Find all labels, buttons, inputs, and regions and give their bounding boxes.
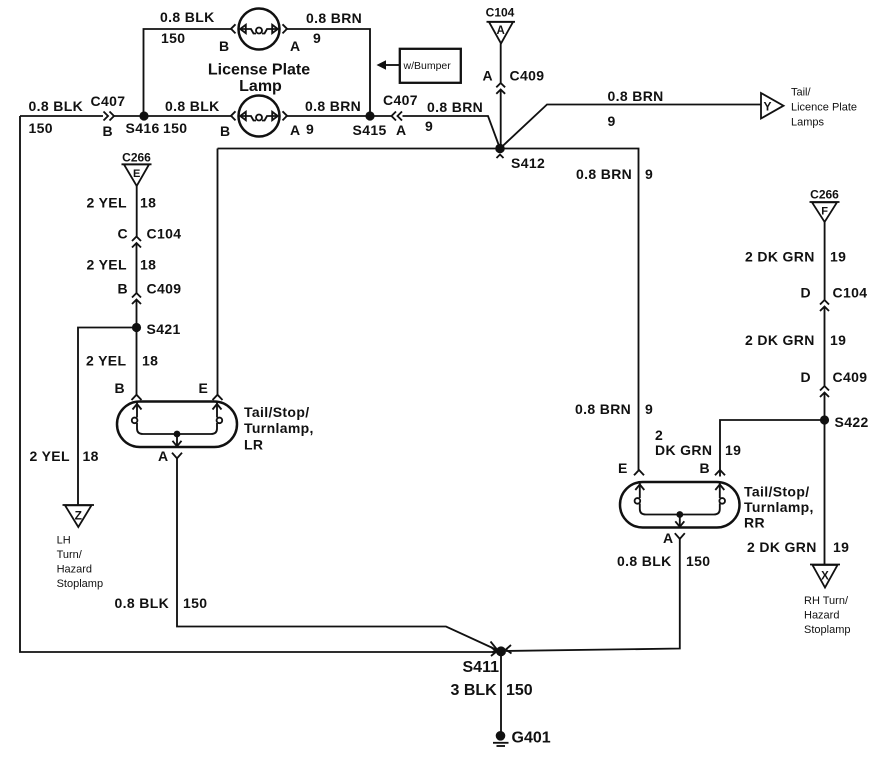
svg-text:18: 18	[142, 353, 158, 369]
wire: 0.8 BRN 9 from C407 to S412	[403, 116, 501, 149]
svg-text:0.8 BLK: 0.8 BLK	[115, 595, 170, 611]
svg-text:B: B	[220, 123, 230, 139]
node: terminal fork B of upper license plate lamp	[231, 24, 236, 33]
wire: 2 YEL branch from S421 left and down to Z triangle	[78, 328, 137, 506]
node: terminal fork E of RR lamp	[634, 470, 644, 475]
svg-text:E: E	[199, 380, 209, 396]
node: terminal fork A of RR lamp	[675, 533, 685, 539]
node: terminal fork B of LR lamp	[132, 395, 142, 400]
svg-text:0.8 BLK: 0.8 BLK	[29, 98, 84, 114]
svg-text:0.8 BLK: 0.8 BLK	[617, 553, 672, 569]
node: terminal fork B of lower license plate lamp	[231, 111, 236, 120]
svg-text:C409: C409	[510, 68, 545, 84]
ground G401	[493, 731, 509, 746]
splice S422	[820, 415, 829, 424]
wire: left border 0.8 BLK 150 from C407-B down and across to S411	[20, 116, 496, 652]
wire: main horizontal 0.8 BLK from left edge to C407 chevrons	[20, 115, 103, 117]
svg-text:150: 150	[686, 553, 710, 569]
connector C407 (B side, double chevron pointing right)	[104, 112, 115, 121]
svg-text:G401: G401	[512, 730, 551, 747]
wire: 0.8 BLK 150 from RR lamp A down and left to S411	[506, 539, 680, 651]
splice S411 with incoming arrowheads	[491, 642, 512, 657]
callout box w/Bumper	[377, 49, 461, 83]
svg-text:D: D	[801, 285, 811, 301]
wire: 0.8 BLK 150 from C407 to S416 to lamp B terminal	[114, 115, 231, 117]
wire: 2 YEL from C409 to S421	[136, 300, 138, 328]
node: terminal fork B of RR lamp	[715, 470, 725, 475]
svg-text:RR: RR	[744, 515, 765, 531]
svg-text:A: A	[483, 68, 493, 84]
connector C266 reference triangle E (left)	[122, 151, 152, 187]
svg-text:Stoplamp: Stoplamp	[804, 624, 850, 636]
svg-text:Lamp: Lamp	[239, 78, 282, 95]
svg-text:C266: C266	[810, 188, 839, 202]
wire: 2 DK GRN from C409 to S422	[824, 393, 826, 421]
svg-text:3 BLK: 3 BLK	[451, 682, 498, 699]
svg-text:A: A	[663, 530, 673, 546]
svg-text:C409: C409	[833, 369, 868, 385]
svg-text:B: B	[219, 38, 229, 54]
wire: 2 YEL from E triangle down to C104 connector	[136, 186, 138, 237]
svg-text:B: B	[700, 460, 710, 476]
svg-text:9: 9	[313, 30, 321, 46]
svg-text:B: B	[115, 380, 125, 396]
svg-text:150: 150	[506, 682, 533, 699]
svg-text:C266: C266	[122, 151, 151, 165]
svg-text:2 DK GRN: 2 DK GRN	[747, 539, 817, 555]
connector Z reference triangle: LH Turn/Hazard Stoplamp	[57, 505, 103, 590]
svg-text:Lamps: Lamps	[791, 117, 825, 129]
svg-text:A: A	[290, 122, 300, 138]
wire: 2 DK GRN branch from S422 left and down to RR lamp B pin	[720, 420, 825, 477]
svg-text:2 YEL: 2 YEL	[87, 195, 127, 211]
node: terminal fork A of LR lamp	[172, 453, 182, 459]
connector C104 reference triangle A (top)	[486, 6, 515, 44]
svg-text:9: 9	[608, 113, 616, 129]
svg-text:0.8 BRN: 0.8 BRN	[305, 98, 361, 114]
svg-text:Turn/: Turn/	[57, 549, 83, 561]
svg-text:0.8 BRN: 0.8 BRN	[608, 88, 664, 104]
wire: horizontal 0.8 BRN from big-rect corner through S412 to right corner	[218, 149, 639, 471]
svg-text:S421: S421	[147, 321, 181, 337]
svg-text:150: 150	[161, 30, 185, 46]
svg-text:2 YEL: 2 YEL	[86, 353, 126, 369]
svg-text:9: 9	[425, 118, 433, 134]
svg-text:Tail/Stop/: Tail/Stop/	[744, 484, 809, 500]
svg-text:9: 9	[645, 401, 653, 417]
wire: left vertical of big rect down to LR lamp E pin	[217, 149, 219, 395]
lamp: Tail/Stop/Turnlamp LR (dual filament bulb)	[117, 402, 237, 448]
lamp: License Plate Lamp (upper bulb)	[239, 9, 280, 50]
svg-text:0.8 BLK: 0.8 BLK	[165, 98, 220, 114]
svg-text:Z: Z	[75, 509, 82, 523]
wire: upper branch 0.8 BLK from S416 up and across to upper lamp	[144, 29, 232, 116]
svg-text:2: 2	[655, 427, 663, 443]
splice S412	[495, 144, 505, 154]
svg-text:Hazard: Hazard	[57, 564, 92, 576]
splice S416	[139, 111, 148, 120]
wire: 0.8 BRN 9 from S412 up-right to Y triangle	[500, 105, 761, 149]
svg-text:S416: S416	[126, 120, 160, 136]
wire: 2 DK GRN from C104 to C409 connector	[824, 307, 826, 387]
wire: 2 DK GRN from S422 down to X triangle	[824, 420, 826, 565]
wire: from C409 down to S412	[500, 90, 502, 149]
lamp: Tail/Stop/Turnlamp RR (dual filament bulb)	[620, 482, 740, 528]
svg-text:2 DK GRN: 2 DK GRN	[745, 332, 815, 348]
svg-text:Turnlamp,: Turnlamp,	[244, 420, 314, 436]
svg-text:D: D	[801, 369, 811, 385]
svg-text:18: 18	[83, 448, 99, 464]
splice S421	[132, 323, 141, 332]
svg-text:C407: C407	[383, 92, 418, 108]
node: chevron mark under S412	[497, 155, 504, 159]
wire: 2 DK GRN from F triangle down to C104 connector	[824, 222, 826, 300]
connector C266 reference triangle F (right)	[810, 188, 840, 223]
svg-text:Tail/Stop/: Tail/Stop/	[244, 404, 309, 420]
connector C104 (D side, double chevron up)	[820, 300, 829, 311]
lamp: License Plate Lamp (lower bulb)	[239, 96, 280, 137]
svg-text:A: A	[158, 448, 168, 464]
svg-text:150: 150	[29, 120, 53, 136]
wire: 2 YEL from C104 to C409 connector	[136, 243, 138, 293]
svg-text:19: 19	[830, 332, 846, 348]
wire: 0.8 BRN from upper lamp A down to S415	[287, 29, 370, 116]
svg-text:B: B	[103, 123, 113, 139]
svg-text:C409: C409	[147, 281, 182, 297]
svg-text:A: A	[396, 122, 406, 138]
svg-text:Hazard: Hazard	[804, 610, 839, 622]
svg-text:19: 19	[833, 539, 849, 555]
connector C409 (B side, double chevron up)	[132, 293, 141, 304]
svg-text:DK GRN: DK GRN	[655, 442, 712, 458]
svg-text:Stoplamp: Stoplamp	[57, 578, 103, 590]
svg-text:0.8 BRN: 0.8 BRN	[427, 99, 483, 115]
svg-text:18: 18	[140, 195, 156, 211]
svg-text:Turnlamp,: Turnlamp,	[744, 499, 814, 515]
svg-text:C407: C407	[91, 93, 126, 109]
svg-text:9: 9	[306, 121, 314, 137]
svg-text:E: E	[133, 168, 140, 180]
svg-text:B: B	[118, 281, 128, 297]
svg-text:0.8 BLK: 0.8 BLK	[160, 9, 215, 25]
svg-text:Tail/: Tail/	[791, 87, 812, 99]
svg-text:0.8 BRN: 0.8 BRN	[306, 10, 362, 26]
node: terminal fork A of upper license plate lamp	[283, 24, 288, 33]
svg-text:150: 150	[163, 120, 187, 136]
svg-text:9: 9	[645, 166, 653, 182]
svg-text:C: C	[118, 226, 128, 242]
svg-text:0.8 BRN: 0.8 BRN	[576, 166, 632, 182]
connector C409 (D side, double chevron up)	[820, 386, 829, 397]
wire: 2 YEL from S421 down to LR lamp B pin	[136, 328, 138, 395]
connector C104 (C side, double chevron up)	[132, 237, 141, 248]
svg-text:A: A	[497, 25, 505, 37]
svg-text:Y: Y	[764, 100, 772, 114]
svg-text:2 YEL: 2 YEL	[30, 448, 70, 464]
node: terminal fork E of LR lamp	[213, 395, 223, 400]
svg-text:w/Bumper: w/Bumper	[403, 60, 452, 72]
svg-text:150: 150	[183, 595, 207, 611]
wire: 3 BLK 150 from S411 down to G401	[500, 651, 502, 732]
svg-text:S411: S411	[463, 659, 500, 676]
svg-text:RH Turn/: RH Turn/	[804, 595, 849, 607]
svg-text:A: A	[290, 38, 300, 54]
node: terminal fork A of lower license plate lamp	[283, 111, 288, 120]
svg-text:0.8 BRN: 0.8 BRN	[575, 401, 631, 417]
connector X reference triangle: RH Turn/Hazard Stoplamp	[804, 565, 850, 637]
wire: 0.8 BRN 9 from lamp A through S415 to C407 chevrons	[287, 115, 391, 117]
svg-text:2 YEL: 2 YEL	[87, 257, 127, 273]
wire: from C104 triangle down to C409 connector	[500, 44, 502, 84]
splice S415	[365, 111, 374, 120]
svg-text:2 DK GRN: 2 DK GRN	[745, 249, 815, 265]
svg-text:Licence Plate: Licence Plate	[791, 102, 857, 114]
svg-text:X: X	[821, 571, 829, 583]
svg-text:LH: LH	[57, 535, 71, 547]
svg-text:License Plate: License Plate	[208, 62, 310, 79]
connector Y reference triangle: Tail/Licence Plate Lamps	[761, 87, 857, 129]
svg-text:19: 19	[725, 442, 741, 458]
svg-text:C104: C104	[833, 285, 868, 301]
svg-text:C104: C104	[486, 6, 515, 20]
svg-text:S415: S415	[353, 122, 387, 138]
connector C409 (A side, double chevron up)	[496, 83, 505, 94]
svg-text:19: 19	[830, 249, 846, 265]
connector C407 (A side, double chevron pointing left)	[392, 112, 403, 121]
svg-text:E: E	[618, 460, 628, 476]
svg-text:C104: C104	[147, 226, 182, 242]
svg-text:F: F	[821, 206, 828, 218]
svg-text:18: 18	[140, 257, 156, 273]
svg-text:S412: S412	[511, 155, 545, 171]
svg-text:LR: LR	[244, 437, 263, 453]
svg-text:S422: S422	[835, 414, 869, 430]
wire: 0.8 BLK 150 from LR lamp A down, right, diagonal to S411	[177, 458, 497, 650]
